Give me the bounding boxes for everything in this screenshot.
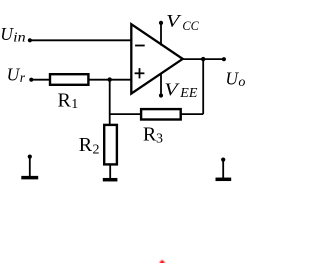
- svg-text:in: in: [13, 30, 25, 45]
- svg-text:R: R: [58, 90, 72, 112]
- svg-text:U: U: [225, 69, 239, 89]
- svg-text:3: 3: [156, 132, 163, 147]
- svg-text:EE: EE: [179, 86, 198, 101]
- svg-text:2: 2: [93, 142, 100, 157]
- svg-text:r: r: [20, 70, 26, 85]
- svg-text:o: o: [238, 75, 245, 90]
- svg-text:R: R: [79, 134, 93, 156]
- svg-text:U: U: [7, 65, 21, 85]
- svg-text:R: R: [143, 123, 157, 145]
- svg-text:U: U: [0, 24, 14, 44]
- svg-text:1: 1: [71, 97, 78, 112]
- svg-text:CC: CC: [182, 19, 199, 33]
